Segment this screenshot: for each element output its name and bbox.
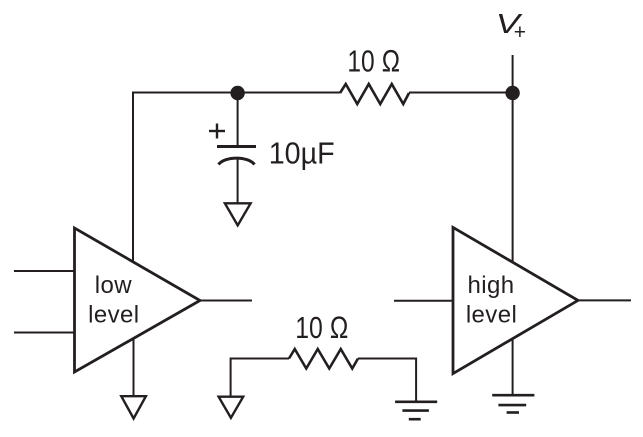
svg-text:low: low <box>95 272 132 299</box>
wire top rail right segment <box>409 92 513 94</box>
op-amp U1 low level triangle <box>75 228 201 372</box>
svg-text:level: level <box>466 302 517 329</box>
wire left amp output <box>200 300 252 302</box>
wire bottom resistor right segment <box>358 359 416 402</box>
wire capacitor top stub <box>237 93 239 147</box>
wire right amp ground stub <box>512 339 514 396</box>
capacitor C1 curved bottom plate <box>219 158 255 164</box>
wire capacitor bottom stub <box>237 158 239 204</box>
svg-text:high: high <box>468 272 515 299</box>
op-amp U2 high level triangle <box>453 227 578 373</box>
wire bottom resistor left stem <box>231 359 289 397</box>
svg-text:+: + <box>514 21 526 44</box>
wire left amp ground stub <box>133 334 135 397</box>
wire top rail left segment <box>133 93 340 262</box>
ground arrow bottom resistor left <box>219 397 244 418</box>
ground arrow under capacitor <box>225 203 251 225</box>
node B junction dot at V+ <box>505 86 519 100</box>
earth ground under right amp <box>492 395 534 412</box>
wire right amp input <box>394 300 453 302</box>
ground arrow under left amp <box>121 396 146 418</box>
earth ground bottom resistor right <box>395 402 437 419</box>
wire left amp input 2 <box>14 332 75 334</box>
svg-text:10 Ω: 10 Ω <box>295 310 349 345</box>
wire left amp input 1 <box>14 270 75 272</box>
svg-text:level: level <box>88 302 139 329</box>
svg-text:10 Ω: 10 Ω <box>347 44 400 79</box>
resistor R1 10 ohm (top) <box>340 84 409 104</box>
svg-text:10µF: 10µF <box>269 135 335 170</box>
resistor R2 10 ohm (bottom) <box>289 349 358 369</box>
node A junction dot <box>230 86 244 100</box>
capacitor C1 top plate <box>217 145 256 148</box>
capacitor C1 polarity plus sign <box>209 124 225 139</box>
wire V+ stub <box>512 55 514 93</box>
wire right amp output <box>578 299 631 301</box>
wire right amp V+ drop <box>512 93 514 261</box>
